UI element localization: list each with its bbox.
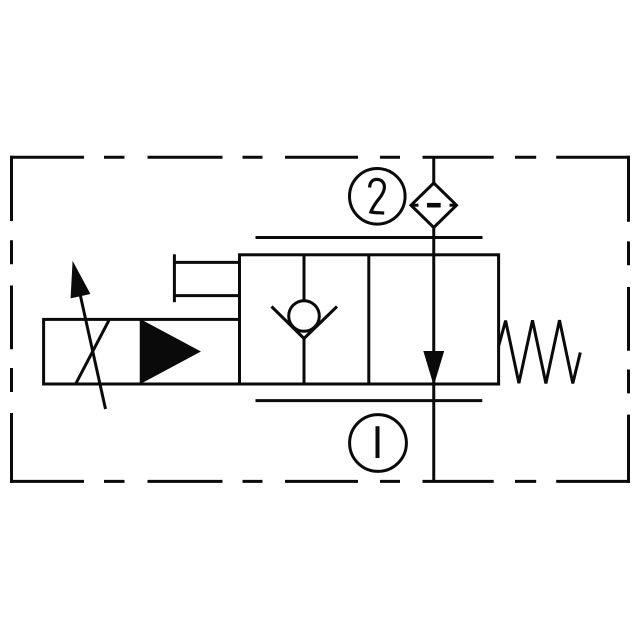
wire: main vertical line port2 to port1 (upper segment) xyxy=(432,157,435,183)
port 1 circle xyxy=(350,415,407,472)
check valve seat V xyxy=(272,307,338,339)
port 2 circle xyxy=(350,169,406,225)
orifice diamond left stub xyxy=(411,204,419,207)
envelope dashed border left xyxy=(10,156,13,483)
orifice diamond xyxy=(411,183,457,228)
envelope dashed border right xyxy=(627,156,630,483)
pilot yoke lower bar xyxy=(174,294,240,297)
wire: main vertical line (lower segment through valve to bottom border) xyxy=(432,228,435,482)
check valve ball circle xyxy=(289,301,320,332)
check valve lower line xyxy=(303,339,306,385)
valve body outline xyxy=(240,255,499,384)
check valve upper line xyxy=(303,255,306,300)
port 2 label "2" xyxy=(370,179,385,213)
spring xyxy=(499,320,581,383)
envelope dashed border bottom xyxy=(10,480,630,483)
solenoid slash line xyxy=(76,320,109,383)
solenoid box divider xyxy=(140,319,143,384)
bottom rail line below valve body xyxy=(256,399,483,402)
top rail line above valve body xyxy=(256,236,483,239)
pilot yoke upper bar xyxy=(174,261,240,264)
port 1 label "1" xyxy=(376,426,380,458)
orifice minus sign xyxy=(427,203,441,208)
valve position divider xyxy=(367,255,370,384)
envelope dashed border top xyxy=(10,156,630,159)
solenoid energize triangle xyxy=(143,321,200,382)
proportional arrow head xyxy=(71,263,90,298)
proportional arrow shaft xyxy=(80,296,105,409)
flow arrow head (down) in position 2 xyxy=(424,352,444,385)
orifice diamond right stub xyxy=(450,204,457,207)
solenoid box xyxy=(44,319,240,384)
pilot yoke vertical xyxy=(173,254,176,302)
